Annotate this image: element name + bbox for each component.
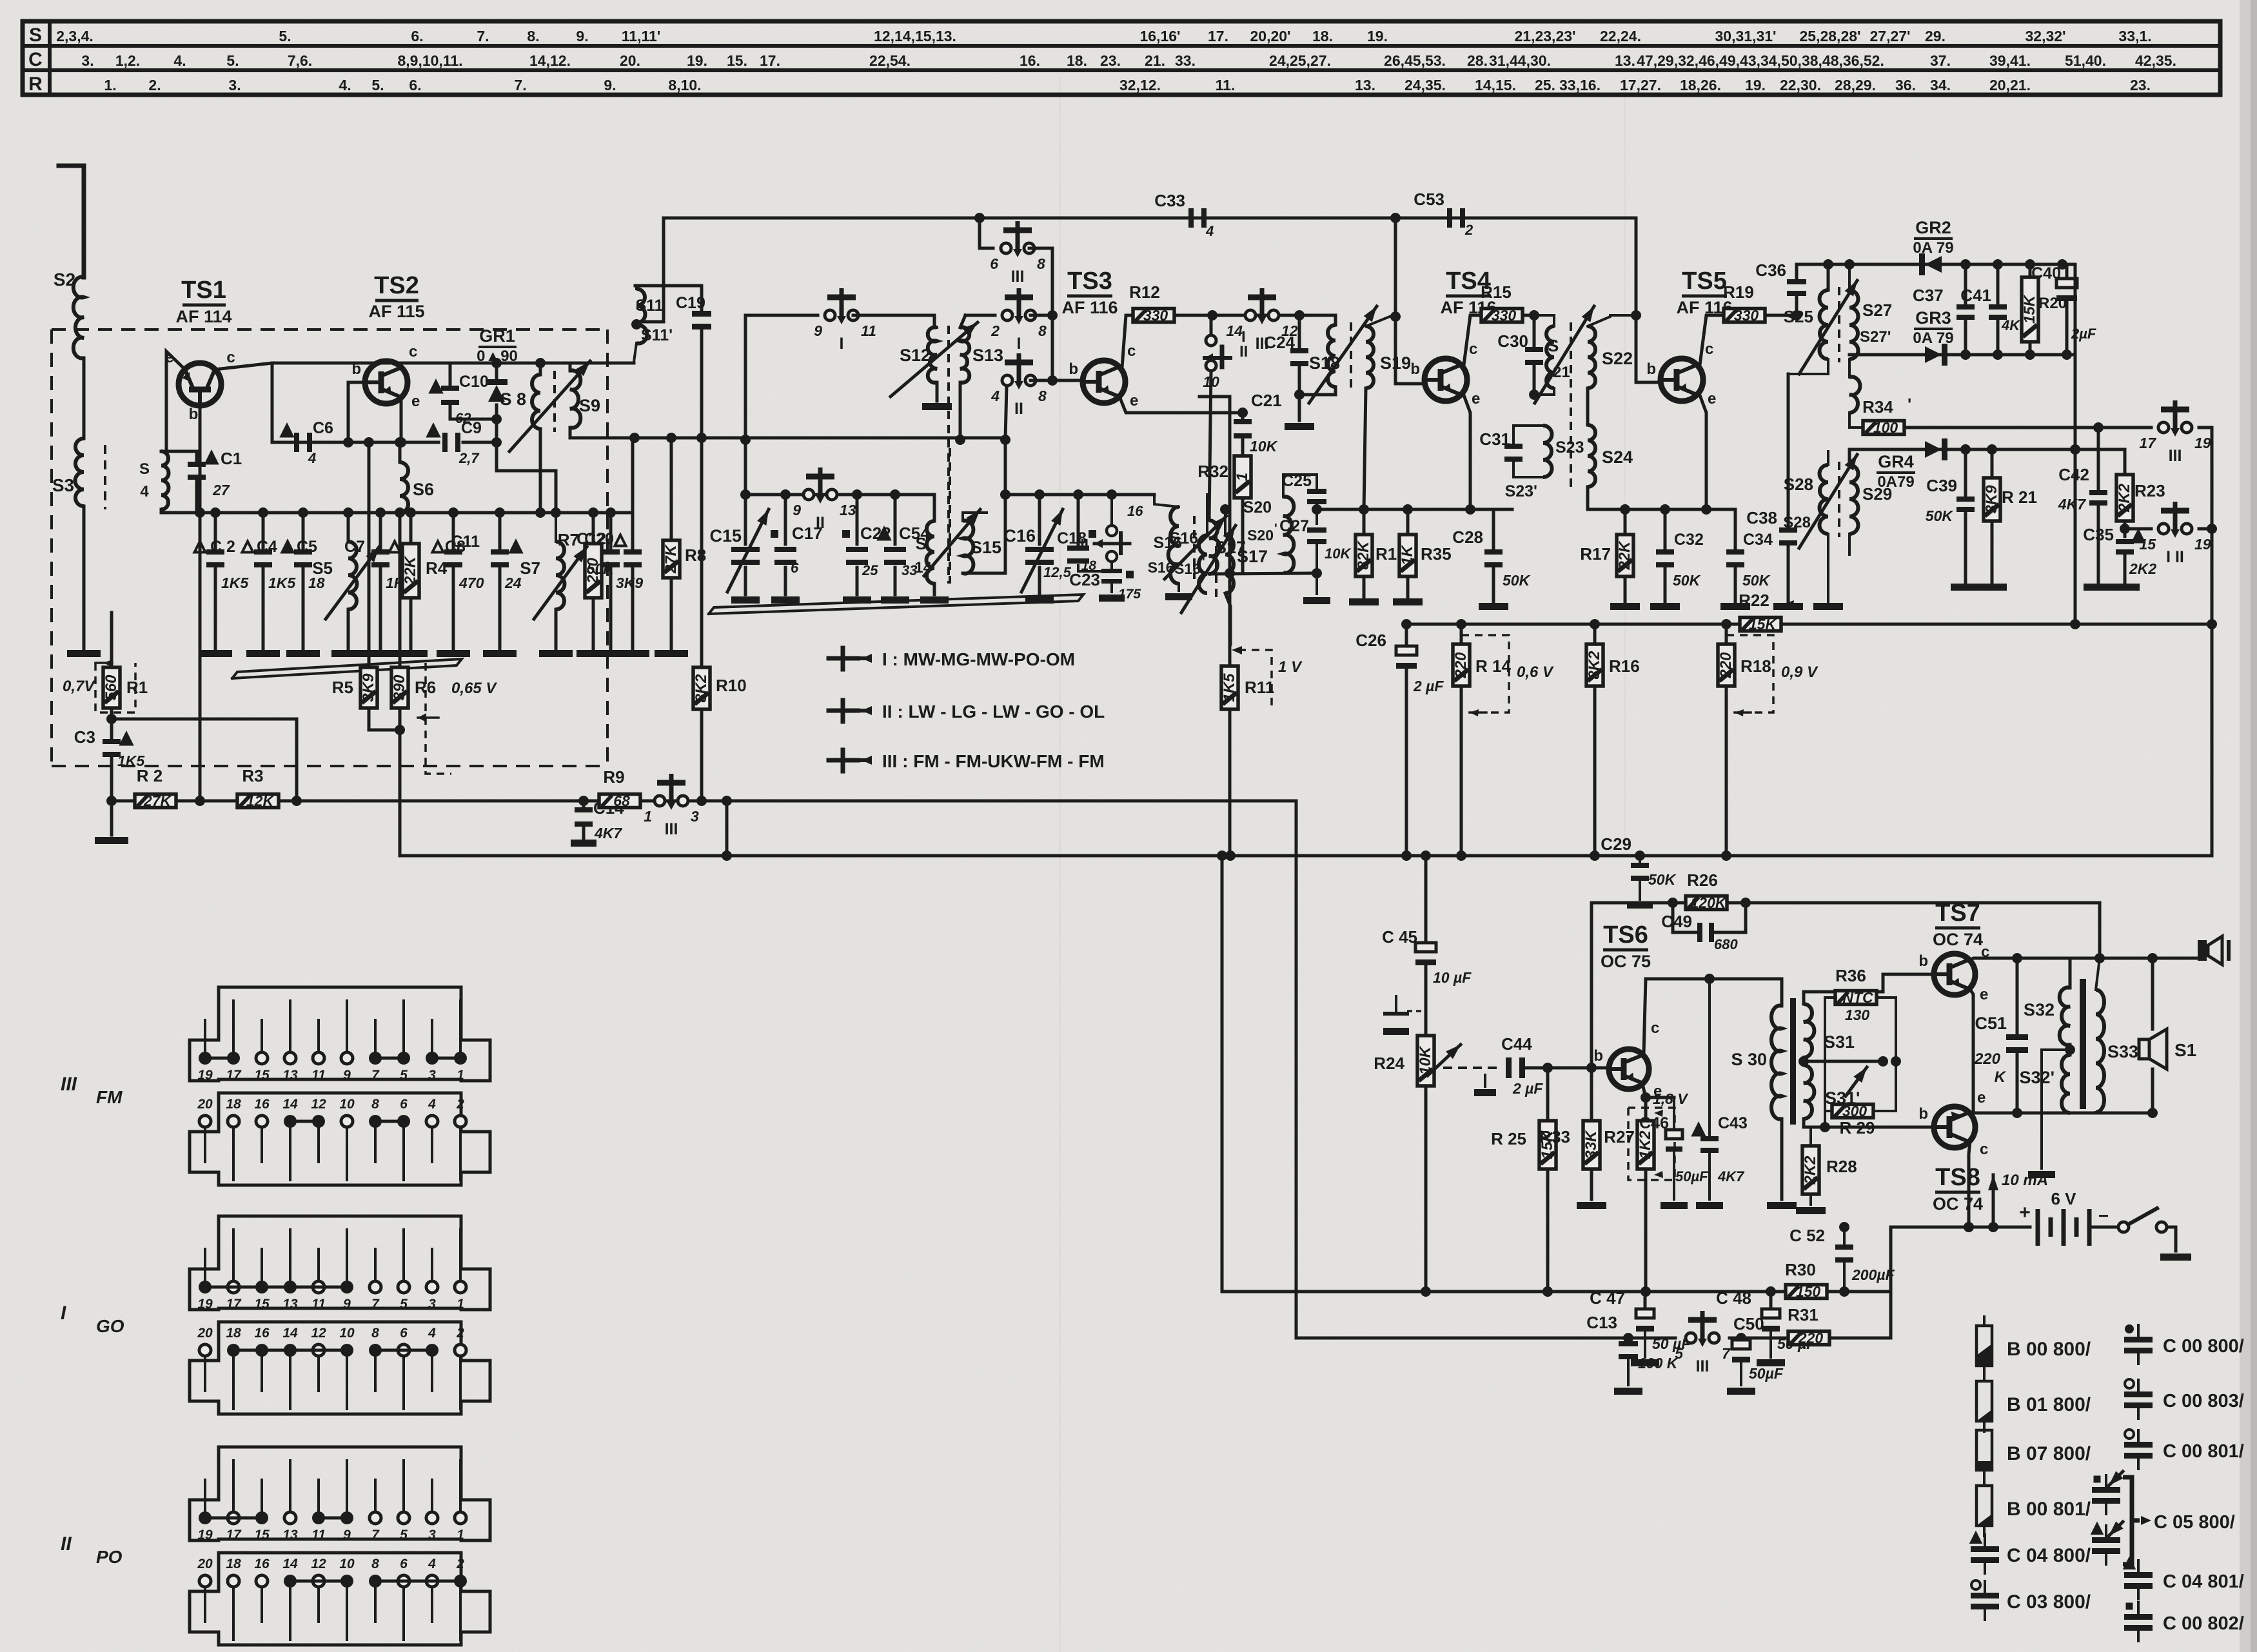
svg-text:0,9 V: 0,9 V <box>1781 664 1818 681</box>
label S19 <box>1380 353 1411 373</box>
svg-text:8: 8 <box>1037 255 1045 272</box>
svg-text:2,3,4.: 2,3,4. <box>56 28 94 44</box>
ground R8 <box>655 650 688 657</box>
svg-text:18: 18 <box>226 1557 241 1571</box>
svg-text:c: c <box>409 343 417 360</box>
label S24 <box>1602 447 1633 467</box>
wire S33 top <box>2096 958 2100 990</box>
coil S28 <box>1820 451 1829 567</box>
resistor R19 <box>1723 282 1765 324</box>
coil S29 <box>1849 465 1858 555</box>
svg-text:2K2: 2K2 <box>1802 1155 1819 1185</box>
capacitor C4 <box>242 513 297 650</box>
svg-text:2.: 2. <box>148 77 161 93</box>
svg-text:1K5: 1K5 <box>221 575 249 591</box>
label S27 <box>1860 300 1892 346</box>
ground C23 <box>1099 595 1125 602</box>
switch 4-II-8 <box>991 353 1047 418</box>
transistor TS6 label <box>1601 921 1651 971</box>
capacitor C31 <box>1479 426 1543 477</box>
wire S2-S3 <box>83 358 86 438</box>
wire R12 to S18 <box>1174 310 1305 320</box>
wire collector line <box>1646 974 1782 984</box>
wire TS5 collector <box>1700 315 1724 365</box>
svg-text:21,23,23': 21,23,23' <box>1515 28 1576 44</box>
switch 9-I-11 <box>814 288 876 353</box>
svg-text:17.: 17. <box>760 52 780 69</box>
resistor R13 <box>1355 509 1406 598</box>
svg-text:C3: C3 <box>74 727 95 747</box>
svg-text:31,44,30.: 31,44,30. <box>1489 52 1551 69</box>
ground C20 <box>616 650 649 657</box>
svg-text:S27': S27' <box>1860 328 1891 346</box>
wire IF emitter row <box>1317 504 1512 515</box>
svg-text:C51: C51 <box>1975 1014 2007 1033</box>
svg-text:C11: C11 <box>451 533 480 551</box>
svg-text:7.: 7. <box>514 77 526 93</box>
svg-text:e: e <box>1980 986 1988 1003</box>
ground C28 <box>1479 603 1508 610</box>
svg-text:GR3: GR3 <box>1915 308 1951 328</box>
svg-text:16: 16 <box>254 1557 270 1571</box>
svg-text:2K2: 2K2 <box>2116 483 2133 513</box>
ground C35 <box>2110 584 2140 591</box>
svg-text:I II: I II <box>2166 548 2184 566</box>
tuning arrow S13 <box>891 319 981 397</box>
svg-text:26,45,53.: 26,45,53. <box>1384 52 1446 69</box>
wire R11 riser <box>1199 397 1230 666</box>
wire TS6 emitter <box>1641 1084 1674 1103</box>
svg-text:32,32': 32,32' <box>2025 28 2065 44</box>
diode GR3 <box>1925 344 1947 366</box>
svg-text:18: 18 <box>226 1326 241 1341</box>
svg-text:23.: 23. <box>1100 52 1121 69</box>
tuning arrow S17 <box>1181 523 1240 613</box>
node C6 line <box>272 441 439 444</box>
ground C54 <box>881 596 909 604</box>
svg-text:R12: R12 <box>1129 282 1160 302</box>
voltage note 0,65V <box>418 663 497 774</box>
svg-text:2: 2 <box>456 1557 464 1571</box>
svg-text:8: 8 <box>371 1326 379 1341</box>
svg-text:R18: R18 <box>1740 656 1771 676</box>
svg-text:III: III <box>665 820 678 838</box>
coil S25 <box>1788 259 1833 374</box>
coil S8 <box>500 358 546 518</box>
switch 1-III-3 <box>644 774 699 838</box>
pot arrow R29 <box>1846 1064 1871 1096</box>
coil S22 <box>1588 315 1610 425</box>
coil S14 <box>914 495 934 595</box>
svg-text:3: 3 <box>428 1528 436 1542</box>
svg-text:II: II <box>1014 400 1023 418</box>
svg-text:R15: R15 <box>1481 282 1512 302</box>
svg-text:I : MW-MG-MW-PO-OM: I : MW-MG-MW-PO-OM <box>882 649 1075 669</box>
legend B 00 801 <box>1976 1477 2091 1536</box>
resistor R18 <box>1717 624 1771 856</box>
svg-text:c: c <box>1705 340 1713 358</box>
transistor TS5 label <box>1676 268 1732 317</box>
coil S13 <box>955 315 969 445</box>
svg-text:AF 115: AF 115 <box>368 302 424 321</box>
resistor R21 <box>1983 449 2037 584</box>
label S12 <box>900 346 931 365</box>
svg-text:19.: 19. <box>1367 28 1388 44</box>
svg-text:6: 6 <box>400 1557 408 1571</box>
wire TS8 collector <box>1964 1141 1974 1232</box>
ground S28 <box>1813 567 1843 610</box>
svg-text:22K: 22K <box>402 555 419 585</box>
svg-text:6: 6 <box>400 1326 408 1341</box>
wire S32 tap <box>2042 1050 2070 1168</box>
svg-text:8K2: 8K2 <box>693 674 710 703</box>
svg-text:18.: 18. <box>1312 28 1333 44</box>
svg-text:5.: 5. <box>279 28 291 44</box>
coil S2 <box>54 270 84 359</box>
wire TS1 emitter <box>166 351 185 451</box>
label S16 <box>1148 534 1182 576</box>
wire lower loop <box>1296 801 1675 1343</box>
svg-text:c: c <box>226 349 235 366</box>
svg-text:C 2: C 2 <box>210 538 235 556</box>
legend II <box>829 700 1105 722</box>
svg-text:C 04 801/: C 04 801/ <box>2163 1571 2244 1592</box>
svg-text:III: III <box>1696 1357 1710 1375</box>
wire switch I feed <box>745 314 818 317</box>
svg-text:1: 1 <box>457 1528 464 1542</box>
wire pin10 to S17 <box>1209 371 1211 520</box>
svg-text:12: 12 <box>311 1557 326 1571</box>
legend C 00 801 <box>2124 1430 2244 1469</box>
capacitor C30 <box>1497 315 1570 400</box>
svg-text:S32': S32' <box>2020 1068 2055 1087</box>
label S32 <box>2020 1000 2055 1087</box>
svg-text:7: 7 <box>1722 1345 1731 1362</box>
svg-text:5: 5 <box>400 1297 408 1312</box>
wire C24 ground <box>1298 395 1301 420</box>
svg-text:18.: 18. <box>1067 52 1087 69</box>
coil S27 <box>1844 259 1858 371</box>
wire osc row <box>740 489 934 500</box>
wire C44 to TS6 base <box>1524 1063 1610 1073</box>
svg-text:50K: 50K <box>1673 572 1701 589</box>
svg-text:R 2: R 2 <box>137 766 163 785</box>
svg-text:20,20': 20,20' <box>1250 28 1290 44</box>
ground R4 <box>394 650 428 657</box>
power switch <box>2118 1208 2176 1251</box>
svg-text:S: S <box>139 460 150 478</box>
transistor TS7 <box>1918 943 1989 1003</box>
switch 5-III-7 <box>1675 1311 1731 1375</box>
capacitor C7 <box>344 513 413 650</box>
svg-text:5: 5 <box>400 1528 408 1542</box>
ground S30 <box>1767 1202 1797 1209</box>
svg-text:C: C <box>28 49 43 70</box>
svg-text:15: 15 <box>254 1068 270 1083</box>
label GR3 <box>1913 308 1953 347</box>
svg-text:36.: 36. <box>1895 77 1916 93</box>
switch 15-III-19 <box>2139 502 2211 566</box>
coil S12 <box>928 328 937 402</box>
svg-text:C46: C46 <box>1639 1114 1669 1132</box>
coil S3 <box>52 438 84 506</box>
ground R35 <box>1393 598 1423 605</box>
label S33 <box>2107 1042 2138 1061</box>
wire R6 top <box>399 513 402 667</box>
svg-text:150: 150 <box>1796 1283 1821 1300</box>
transistor TS2 <box>351 343 420 410</box>
svg-text:25: 25 <box>862 562 878 578</box>
ground C12 <box>594 650 627 657</box>
wire R15 to C30 <box>1523 314 1534 317</box>
svg-text:27K: 27K <box>143 792 172 809</box>
capacitor C49 <box>1661 903 1746 952</box>
svg-text:b: b <box>1069 360 1078 378</box>
svg-text:9: 9 <box>343 1297 351 1312</box>
wire R1 top <box>110 613 113 667</box>
wire osc feed <box>740 315 751 495</box>
wire S22 top to TS5 base <box>1610 310 1641 320</box>
svg-text:C50: C50 <box>1733 1314 1764 1333</box>
voltage note 09V <box>1726 635 1818 716</box>
svg-text:68: 68 <box>613 792 630 809</box>
capacitor C54 <box>879 495 931 595</box>
wire S3 to ground <box>83 506 86 650</box>
svg-text:10 µF: 10 µF <box>1433 969 1472 986</box>
svg-text:12,5: 12,5 <box>1043 564 1072 580</box>
svg-text:4: 4 <box>308 450 316 466</box>
svg-text:11: 11 <box>861 322 876 339</box>
svg-text:S 8: S 8 <box>500 389 526 409</box>
capacitor C33 <box>1154 191 1214 239</box>
resistor R27 <box>1604 1097 1654 1297</box>
svg-text:17: 17 <box>226 1068 242 1083</box>
svg-text:4: 4 <box>428 1326 436 1341</box>
svg-text:12,14,15,13.: 12,14,15,13. <box>874 28 956 44</box>
resistor R31 <box>1788 1305 1829 1346</box>
svg-text:R23: R23 <box>2134 481 2165 500</box>
volume tap ground <box>1383 996 1421 1035</box>
svg-text:C13: C13 <box>1586 1313 1617 1332</box>
svg-text:10: 10 <box>339 1097 355 1112</box>
wire S33 bottom <box>2096 1112 2153 1122</box>
svg-text:37.: 37. <box>1930 52 1951 69</box>
core S8/S9 <box>553 371 556 432</box>
svg-text:14: 14 <box>282 1326 298 1341</box>
svg-text:OC 75: OC 75 <box>1601 952 1651 971</box>
svg-text:S29: S29 <box>1862 484 1892 504</box>
svg-text:4K7: 4K7 <box>1717 1168 1745 1185</box>
ground C5 <box>286 650 320 657</box>
svg-text:6: 6 <box>400 1097 408 1112</box>
transistor TS6 <box>1593 1019 1662 1100</box>
resistor R22 <box>1739 591 1794 633</box>
svg-text:1,2.: 1,2. <box>115 52 140 69</box>
wire S31 bot to TS8 <box>1804 1119 1931 1132</box>
svg-text:S28: S28 <box>1784 475 1813 494</box>
svg-text:8K2: 8K2 <box>1586 651 1603 680</box>
svg-text:9: 9 <box>343 1068 351 1083</box>
tuning arrow S15 <box>924 506 984 576</box>
potentiometer R24 <box>1374 1036 1464 1297</box>
label S13 <box>972 346 1003 365</box>
svg-text:4: 4 <box>428 1557 436 1571</box>
svg-text:3K9: 3K9 <box>360 673 377 702</box>
wire TS5 base <box>1636 315 1658 382</box>
svg-text:III : FM - FM-UKW-FM - FM: III : FM - FM-UKW-FM - FM <box>882 751 1105 771</box>
ground C22 <box>843 596 871 604</box>
capacitor C34 <box>1726 509 1773 603</box>
svg-text:11: 11 <box>311 1528 326 1542</box>
transistor TS1 <box>165 349 235 423</box>
svg-text:C17: C17 <box>792 524 823 543</box>
svg-text:34.: 34. <box>1930 77 1951 93</box>
svg-text:C37: C37 <box>1913 286 1944 305</box>
svg-text:17: 17 <box>226 1297 242 1312</box>
wire C6-C9 <box>315 441 439 444</box>
svg-text:R1: R1 <box>126 678 148 697</box>
svg-text:33.: 33. <box>1175 52 1196 69</box>
svg-text:e: e <box>1708 390 1716 408</box>
resistor R3 <box>237 766 279 809</box>
svg-text:5.: 5. <box>371 77 384 93</box>
legend B 07 800 <box>1976 1421 2091 1480</box>
wire TS5 emitter <box>1700 395 1706 509</box>
transistor TS4 <box>1410 340 1480 408</box>
capacitor C5 <box>282 513 325 650</box>
svg-text:50K: 50K <box>1742 572 1771 589</box>
svg-text:C6: C6 <box>313 419 333 437</box>
wire bus A <box>112 796 1296 806</box>
legend C 03 800 <box>1971 1580 2091 1620</box>
legend B 00 800 <box>1976 1317 2091 1376</box>
svg-text:I: I <box>840 335 844 353</box>
svg-text:b: b <box>1646 360 1656 378</box>
label S22 <box>1602 349 1633 368</box>
capacitor C48 <box>1716 1288 1816 1366</box>
svg-text:100: 100 <box>1873 419 1898 436</box>
svg-text:13.: 13. <box>1355 77 1375 93</box>
voltage note 0,7V <box>63 660 135 713</box>
capacitor C1 <box>188 449 242 513</box>
ground C42 <box>2084 584 2113 591</box>
coil S20 <box>1243 475 1317 573</box>
wire TS5 emitter row <box>1588 504 1735 515</box>
voltage note 1V <box>1232 646 1303 709</box>
svg-text:0,6 V: 0,6 V <box>1517 664 1554 681</box>
svg-text:9.: 9. <box>576 28 588 44</box>
ground S14 <box>920 596 949 604</box>
svg-text:R3: R3 <box>242 766 263 785</box>
svg-text:8: 8 <box>1038 322 1047 339</box>
svg-text:C32: C32 <box>1674 531 1704 549</box>
core S30/S31 <box>1790 998 1796 1125</box>
svg-text:50K: 50K <box>1926 507 1954 524</box>
svg-text:5.: 5. <box>226 52 239 69</box>
svg-text:PO: PO <box>96 1547 123 1567</box>
ground C24 <box>1285 423 1314 430</box>
svg-text:50K: 50K <box>1503 572 1531 589</box>
svg-text:8,9,10,11.: 8,9,10,11. <box>397 52 462 69</box>
core S16/S17 <box>1193 516 1196 579</box>
svg-text:TS3: TS3 <box>1067 268 1112 295</box>
svg-text:17: 17 <box>2139 435 2156 451</box>
svg-text:120K: 120K <box>1691 894 1727 911</box>
svg-text:c: c <box>1127 342 1136 360</box>
ground R17 <box>1610 603 1640 610</box>
wire TS2 collector line <box>272 362 634 365</box>
resistor R1 <box>103 663 148 724</box>
svg-text:20.: 20. <box>620 52 640 69</box>
svg-text:12: 12 <box>311 1326 326 1341</box>
svg-text:S11: S11 <box>635 297 663 315</box>
coil S6 <box>395 437 408 518</box>
svg-text:S33: S33 <box>2107 1042 2138 1061</box>
svg-text:C53: C53 <box>1414 190 1444 209</box>
core S28/S29 <box>1838 462 1840 537</box>
svg-text:c: c <box>1469 340 1477 358</box>
svg-text:III: III <box>1011 268 1025 286</box>
core S22/S24 <box>1570 322 1572 490</box>
legend III <box>829 750 1105 771</box>
svg-text:R26: R26 <box>1687 870 1718 890</box>
resistor R12 <box>1129 282 1174 324</box>
capacitor C22 <box>842 495 891 595</box>
svg-text:2,7: 2,7 <box>458 450 480 466</box>
svg-text:10K: 10K <box>1325 546 1352 562</box>
svg-text:33,16.: 33,16. <box>1559 77 1601 93</box>
svg-text:4: 4 <box>140 483 149 500</box>
svg-text:C49: C49 <box>1661 912 1692 931</box>
svg-text:16: 16 <box>1127 503 1143 519</box>
svg-text:C 00 801/: C 00 801/ <box>2163 1441 2244 1462</box>
resistor R11 <box>1221 666 1274 852</box>
svg-text:3: 3 <box>428 1068 436 1083</box>
svg-text:6 V: 6 V <box>2051 1189 2076 1208</box>
ground R13 <box>1349 598 1379 605</box>
svg-text:C33: C33 <box>1154 191 1185 210</box>
wire emitter line <box>1973 1108 2158 1118</box>
svg-text:R 29: R 29 <box>1840 1118 1875 1137</box>
resistor R28 <box>1802 1119 1857 1205</box>
svg-text:220: 220 <box>1452 652 1470 679</box>
svg-text:II: II <box>1239 343 1248 360</box>
core S14/S15 <box>949 448 951 584</box>
ground R33 <box>1577 1202 1606 1209</box>
svg-text:S11': S11' <box>641 326 673 344</box>
svg-text:6.: 6. <box>411 28 423 44</box>
svg-text:22,54.: 22,54. <box>869 52 911 69</box>
svg-text:25.: 25. <box>1535 77 1555 93</box>
svg-text:+: + <box>2019 1202 2031 1223</box>
wire TS3 base <box>1030 379 1083 382</box>
label S6 <box>413 480 434 499</box>
wire TS3 collector <box>1122 315 1134 368</box>
wire C9 to GR1 <box>463 437 502 447</box>
parts cross-reference table S/C/R <box>23 21 2220 95</box>
svg-text:TS8: TS8 <box>1935 1164 1980 1191</box>
svg-text:19: 19 <box>197 1528 213 1542</box>
svg-text:b: b <box>1918 952 1928 970</box>
transistor TS2 label <box>368 272 424 321</box>
svg-text:16,16': 16,16' <box>1139 28 1180 44</box>
resistor R30 <box>1785 1260 1827 1300</box>
svg-text:11: 11 <box>311 1297 326 1312</box>
tuning arrow S8/S9 <box>509 358 594 451</box>
label S28 <box>1783 475 1813 531</box>
svg-text:1.: 1. <box>104 77 116 93</box>
svg-text:50K: 50K <box>587 560 615 577</box>
